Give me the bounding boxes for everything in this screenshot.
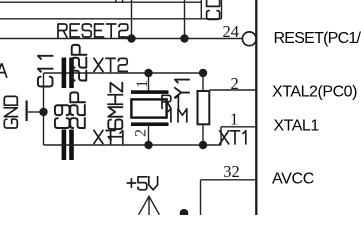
svg-text:2: 2 bbox=[133, 129, 150, 137]
node junction dot on +5V rail bbox=[180, 209, 189, 218]
label 22p of C11 rotated bbox=[72, 45, 87, 81]
wire pin 32 AVCC bbox=[201, 179, 257, 181]
resistor R1 body bbox=[198, 91, 210, 124]
node junction dot resistor top bbox=[199, 69, 207, 77]
supply +5V arrow symbol bbox=[139, 196, 160, 215]
node junction dot resistor bottom bbox=[199, 141, 207, 149]
label +5V bbox=[127, 177, 157, 190]
pin 24 inverting bubble bbox=[242, 32, 256, 46]
label 1M bbox=[168, 109, 187, 122]
wire stub tick 1 on top line bbox=[115, 0, 117, 3]
svg-text:AVCC: AVCC bbox=[272, 170, 314, 187]
wire RESET2 net horizontal bbox=[0, 38, 243, 40]
node junction dot crystal top bbox=[144, 69, 152, 77]
label 22p of C9 rotated bbox=[70, 92, 85, 128]
svg-text:24: 24 bbox=[223, 22, 240, 41]
capacitor C9 plate left bbox=[62, 130, 67, 161]
wire vertical CD pin right bbox=[221, 0, 223, 19]
wire XT1 corner up bbox=[220, 127, 222, 145]
label XT1 right bbox=[220, 131, 246, 144]
svg-text:RESET(PC1/P: RESET(PC1/P bbox=[274, 30, 361, 47]
crystal Y1 body bbox=[131, 99, 166, 117]
label XT1 left bbox=[94, 131, 123, 144]
wire vertical CD pin left bbox=[200, 0, 202, 19]
label C9 rotated bbox=[55, 105, 70, 128]
wire crystal bottom stub bbox=[148, 126, 150, 145]
wire GND tee horizontal bbox=[28, 111, 44, 113]
label XT2 bbox=[94, 58, 127, 71]
wire vertical drop to RESET2 junction B bbox=[184, 0, 186, 39]
wire XT1 net horizontal bbox=[44, 144, 222, 146]
svg-text:XTAL2(PC0): XTAL2(PC0) bbox=[272, 83, 357, 100]
wire resistor bottom stub bbox=[202, 124, 204, 145]
node junction dot GND tee bbox=[39, 108, 47, 116]
wire pin 1 XTAL1 bbox=[221, 126, 256, 128]
ground symbol bar bbox=[26, 101, 28, 122]
label Y1 rotated bbox=[175, 80, 189, 98]
wire XT2 net horizontal bbox=[44, 72, 204, 74]
label partial A at left edge bbox=[0, 64, 7, 77]
node junction dot on RESET2 at drop A bbox=[127, 34, 135, 42]
ground label GND rotated bbox=[4, 96, 17, 128]
wire stub tick 2 on top line bbox=[122, 0, 124, 3]
crystal Y1 top electrode plate bbox=[131, 90, 169, 94]
svg-text:1: 1 bbox=[230, 110, 238, 129]
IC boundary border bbox=[255, 0, 257, 215]
capacitor C11 plate right bbox=[69, 58, 74, 89]
wire top bus line 1 bbox=[0, 1, 201, 3]
wire top bus line 2 bbox=[0, 18, 222, 20]
wire AVCC drop to +5V rail bbox=[200, 180, 202, 215]
svg-text:1: 1 bbox=[134, 80, 151, 88]
crystal Y1 bottom electrode plate bbox=[131, 122, 169, 126]
svg-text:2: 2 bbox=[230, 74, 238, 93]
wire pin 2 XTAL2 bbox=[209, 89, 256, 91]
svg-text:XTAL1: XTAL1 bbox=[274, 117, 320, 134]
wire crystal top stub bbox=[148, 73, 150, 91]
label R1 bbox=[162, 95, 178, 108]
svg-text:32: 32 bbox=[223, 162, 240, 181]
node junction dot crystal bottom bbox=[144, 141, 152, 149]
label RESET2 bbox=[58, 24, 128, 37]
node junction dot on RESET2 at drop B bbox=[180, 34, 188, 42]
wire vertical feed from XT2 down to XT1 bbox=[43, 73, 45, 145]
label CD rotated bbox=[207, 0, 220, 19]
capacitor C11 plate left bbox=[62, 58, 67, 89]
label C11 rotated bbox=[38, 56, 53, 87]
label 16MHz rotated bbox=[108, 83, 122, 140]
capacitor C9 plate right bbox=[69, 130, 74, 161]
wire vertical drop to RESET2 junction A bbox=[131, 0, 133, 39]
wire resistor top stub bbox=[202, 73, 204, 90]
